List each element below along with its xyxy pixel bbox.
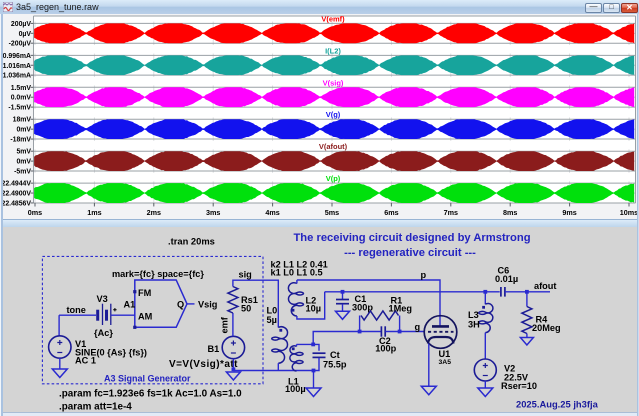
voltage source V2	[474, 359, 496, 381]
wire tone to V3	[59, 314, 96, 316]
svg-text:emf: emf	[220, 316, 230, 333]
capacitor C6	[500, 287, 502, 297]
svg-text:5µ: 5µ	[267, 315, 277, 325]
svg-text:2ms: 2ms	[147, 208, 161, 217]
waveform plot panel	[0, 14, 639, 220]
inductor L3	[479, 304, 493, 333]
p rail wire	[297, 280, 440, 326]
ground V1	[52, 369, 67, 378]
junction tank top	[311, 343, 315, 347]
wire C1 bottom	[342, 304, 344, 311]
svg-text:L0: L0	[267, 306, 278, 316]
svg-text:afout: afout	[534, 281, 556, 291]
wire C6 to afout	[505, 291, 550, 293]
maximize button	[603, 3, 620, 13]
svg-text:B1: B1	[208, 344, 220, 354]
wire C1 stub	[342, 292, 344, 299]
svg-text:g: g	[415, 322, 421, 332]
svg-text:-5mV: -5mV	[14, 169, 31, 176]
svg-text:V=V(Vsig)*att: V=V(Vsig)*att	[169, 359, 238, 370]
capacitor C2	[380, 326, 382, 336]
wire B1 top to Rs1	[232, 313, 234, 336]
capacitor C1	[336, 299, 349, 301]
svg-text:5mV: 5mV	[16, 149, 31, 156]
svg-text:U1: U1	[439, 349, 451, 359]
svg-text:4ms: 4ms	[265, 208, 279, 217]
wire V1 bottom	[59, 358, 61, 369]
svg-text:1ms: 1ms	[87, 208, 101, 217]
ground tank	[306, 388, 321, 397]
wire ground bus	[233, 370, 313, 372]
inductor L1	[290, 346, 303, 371]
svg-text:sig: sig	[239, 270, 252, 280]
battery V3	[98, 304, 117, 325]
svg-text:.param att=1e-4: .param att=1e-4	[59, 402, 132, 413]
svg-text:V(emf): V(emf)	[321, 14, 345, 23]
wire Q output	[187, 303, 195, 305]
junction R1C2 right	[398, 330, 402, 334]
svg-text:22.4944V: 22.4944V	[1, 181, 31, 188]
svg-text:Vsig: Vsig	[198, 300, 217, 310]
svg-text:A1: A1	[124, 300, 136, 310]
svg-text:3ms: 3ms	[206, 208, 220, 217]
trace I(L2)	[34, 55, 634, 75]
svg-text:.tran 20ms: .tran 20ms	[168, 236, 215, 247]
svg-text:Ct: Ct	[330, 350, 340, 360]
svg-text:-1.016mA: -1.016mA	[0, 63, 31, 70]
wire L3 top stub	[484, 292, 486, 305]
svg-text:0.01µ: 0.01µ	[495, 274, 518, 284]
triode U1	[424, 316, 457, 349]
app icon	[3, 2, 13, 12]
svg-text:The receiving circuit designed: The receiving circuit designed by Armstr…	[293, 232, 530, 244]
wire Rs1 top / sig wire	[233, 280, 278, 327]
svg-text:3A5: 3A5	[439, 359, 452, 366]
svg-text:V(sig): V(sig)	[323, 78, 344, 87]
trace V(p)	[34, 183, 634, 203]
inductor L0	[272, 327, 288, 363]
phase dot L1	[292, 347, 295, 350]
wire R4 bottom	[526, 334, 528, 338]
junction L3 top	[483, 290, 487, 294]
svg-text:0mV: 0mV	[16, 127, 31, 134]
svg-text:0µV: 0µV	[19, 31, 32, 38]
svg-text:V(g): V(g)	[326, 110, 341, 119]
resistor R4	[522, 307, 532, 334]
voltage source V1	[49, 336, 71, 358]
window title bar	[0, 0, 639, 14]
resistor R1	[361, 311, 399, 320]
wire Ct bottom	[314, 358, 320, 371]
trace V(emf)	[34, 23, 634, 43]
phase dot L0	[279, 329, 282, 332]
behavioral source B1	[222, 336, 244, 358]
svg-text:0mV: 0mV	[16, 159, 31, 166]
pin FM marker	[133, 290, 136, 293]
svg-text:10ms: 10ms	[620, 208, 638, 217]
wire V1 top	[58, 315, 60, 336]
dashed subcircuit box A3	[42, 256, 263, 383]
wire L3 bottom to V2	[484, 333, 486, 360]
svg-text:2025.Aug.25 jh3fja: 2025.Aug.25 jh3fja	[516, 399, 599, 410]
phase dot L2	[292, 309, 295, 312]
svg-text:A3 Signal Generator: A3 Signal Generator	[104, 374, 191, 384]
ground V2	[478, 388, 493, 397]
trace V(g)	[34, 119, 634, 139]
svg-text:.param fc=1.923e6 fs=1k Ac=1.0: .param fc=1.923e6 fs=1k Ac=1.0 As=1.0	[59, 389, 242, 400]
svg-text:18mV: 18mV	[13, 117, 32, 124]
grid wire from tank	[313, 332, 381, 345]
splitter bar	[0, 219, 639, 227]
svg-text:Rser=10: Rser=10	[501, 381, 537, 391]
svg-text:L3: L3	[468, 310, 479, 320]
junction tank bottom	[312, 369, 316, 373]
svg-text:mark={fc} space={fc}: mark={fc} space={fc}	[112, 269, 204, 279]
ground C1	[336, 311, 350, 319]
svg-text:-1.036mA: -1.036mA	[0, 73, 31, 80]
svg-text:V3: V3	[97, 294, 108, 304]
wire L2 top to p rail	[296, 280, 298, 284]
wire R1 left leg	[359, 316, 361, 332]
svg-text:1.5mV: 1.5mV	[11, 85, 32, 92]
svg-text:3H: 3H	[468, 320, 480, 330]
junction R1C2 left	[358, 330, 362, 334]
svg-text:20Meg: 20Meg	[532, 323, 561, 333]
junction B1 ground	[232, 367, 236, 371]
svg-text:tone: tone	[67, 305, 86, 315]
capacitor Ct	[313, 352, 326, 354]
svg-text:10µ: 10µ	[306, 304, 322, 314]
svg-text:AM: AM	[138, 312, 153, 322]
svg-text:k1 L0 L1 0.5: k1 L0 L1 0.5	[271, 268, 323, 278]
wire B1 bottom	[232, 359, 234, 371]
svg-text:9ms: 9ms	[562, 208, 576, 217]
junction C1 tap	[341, 290, 345, 294]
schematic panel	[0, 227, 639, 412]
svg-text:Q: Q	[177, 300, 184, 310]
svg-text:-0.996mA: -0.996mA	[0, 53, 31, 60]
ground R4	[520, 338, 533, 346]
svg-text:1Meg: 1Meg	[389, 304, 413, 314]
svg-text:22.4900V: 22.4900V	[1, 191, 31, 198]
svg-text:AC 1: AC 1	[75, 356, 96, 366]
svg-text:--- regenerative circuit ---: --- regenerative circuit ---	[344, 247, 476, 259]
svg-text:{Ac}: {Ac}	[94, 328, 113, 338]
wire V2 bottom	[484, 381, 486, 388]
wire cathode to ground	[428, 344, 430, 387]
svg-text:0.0mV: 0.0mV	[11, 95, 32, 102]
svg-text:75.5p: 75.5p	[323, 360, 347, 370]
ground U1	[421, 386, 436, 395]
svg-text:-1.5mV: -1.5mV	[8, 105, 31, 112]
wire L0 bottom	[277, 363, 279, 370]
svg-text:200µV: 200µV	[11, 21, 31, 28]
wire tank ground stem	[313, 371, 315, 389]
wire R4 top stub	[526, 292, 528, 307]
svg-text:I(L2): I(L2)	[325, 46, 341, 55]
trace V(afout)	[34, 151, 634, 171]
resistor Rs1	[228, 287, 238, 314]
svg-text:5ms: 5ms	[325, 208, 339, 217]
modulator block A1	[135, 280, 187, 327]
pin marker A1 bottom-left	[133, 326, 136, 329]
trace V(sig)	[34, 87, 634, 107]
svg-text:7ms: 7ms	[444, 208, 458, 217]
close button	[621, 3, 638, 13]
svg-text:p: p	[421, 270, 427, 280]
phase dot L3	[482, 306, 485, 309]
wire V3 to A1 AM pin	[111, 314, 135, 316]
wire L1 top stub	[296, 344, 298, 346]
svg-text:8ms: 8ms	[503, 208, 517, 217]
wire R1 right leg	[399, 316, 401, 332]
wire C2 to grid	[385, 331, 425, 333]
ground B1	[226, 372, 240, 380]
svg-text:100p: 100p	[375, 344, 396, 354]
svg-text:V(afout): V(afout)	[319, 142, 348, 151]
inductor L2	[288, 283, 303, 316]
wire L2 bottom elbow	[297, 292, 325, 319]
minimize button	[585, 3, 602, 13]
svg-text:100µ: 100µ	[285, 384, 306, 394]
svg-text:50: 50	[241, 304, 251, 314]
svg-text:22.4856V: 22.4856V	[1, 201, 31, 208]
wire tank top	[297, 344, 320, 350]
svg-text:FM: FM	[138, 288, 152, 298]
junction R4 top	[525, 290, 529, 294]
plate feed rail	[325, 291, 500, 293]
svg-text:-200µV: -200µV	[9, 41, 32, 48]
svg-text:0ms: 0ms	[28, 208, 42, 217]
svg-text:-18mV: -18mV	[10, 137, 31, 144]
svg-text:6ms: 6ms	[384, 208, 398, 217]
svg-text:V(p): V(p)	[326, 174, 341, 183]
